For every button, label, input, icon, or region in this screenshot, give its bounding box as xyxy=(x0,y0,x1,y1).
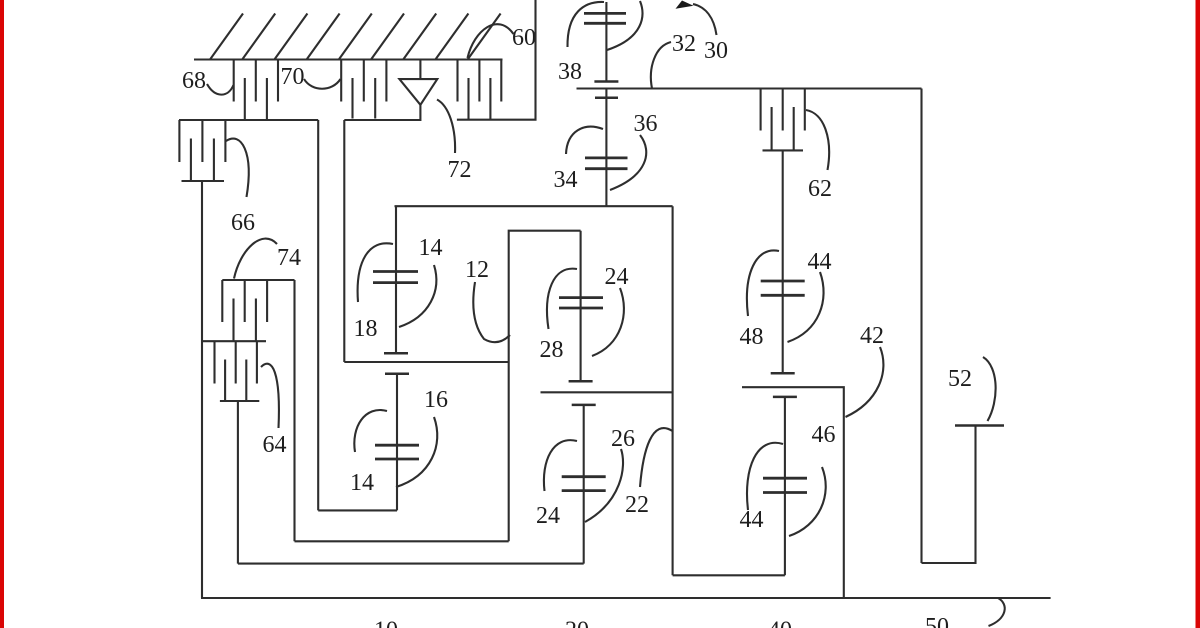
svg-text:14: 14 xyxy=(350,470,374,496)
node line hub of brake 68 xyxy=(179,119,318,121)
svg-text:60: 60 xyxy=(512,25,536,51)
svg-text:38: 38 xyxy=(558,59,582,85)
leader hook 66 xyxy=(226,139,249,197)
leader hook 32 xyxy=(651,42,671,89)
leader hook 50 xyxy=(989,598,1005,626)
svg-text:28: 28 xyxy=(540,337,564,363)
leader hook 64 xyxy=(261,364,279,428)
red right border stripe xyxy=(1196,0,1200,628)
svg-text:44: 44 xyxy=(740,507,764,533)
wire left long vertical from brake 66 hub xyxy=(201,181,203,598)
leader arc 34 xyxy=(566,127,603,154)
brake 60 friction pack xyxy=(458,60,502,120)
svg-text:22: 22 xyxy=(625,492,649,518)
leader arc 46 right xyxy=(789,467,826,536)
gear node 46 44 xyxy=(763,397,807,575)
gear node 44 48 xyxy=(761,150,805,373)
leader arc 44 lower left xyxy=(747,443,783,510)
leader hook 62 xyxy=(806,110,829,170)
leader hook 42 xyxy=(846,347,884,417)
svg-text:20: 20 xyxy=(565,618,589,628)
svg-text:36: 36 xyxy=(634,111,658,137)
gear node 14 18 xyxy=(373,206,418,353)
wire from brake 74 to lower node xyxy=(293,280,295,541)
gear node 24 28 xyxy=(559,231,603,382)
leader arc 44 right xyxy=(788,272,824,342)
node line 22 xyxy=(238,563,584,565)
svg-text:42: 42 xyxy=(860,323,884,349)
leader arc 14 right xyxy=(399,265,436,327)
leader arc 16 right xyxy=(396,417,437,487)
wire from brake 70 hub down xyxy=(343,120,345,362)
svg-text:46: 46 xyxy=(812,422,836,448)
gear node 38 xyxy=(584,2,626,82)
svg-text:14: 14 xyxy=(419,235,443,261)
wire shaft of brake 64 xyxy=(237,401,239,564)
clutch 62 friction pack xyxy=(761,89,805,151)
svg-text:44: 44 xyxy=(808,249,832,275)
arrow 30 xyxy=(676,1,694,9)
node line under 24 xyxy=(541,391,673,393)
one-way clutch 72 triangle xyxy=(399,79,437,105)
hub line of brake 60 xyxy=(457,0,536,120)
node line under 14 xyxy=(344,361,508,363)
hub line of brake 70 xyxy=(344,105,420,120)
svg-text:70: 70 xyxy=(281,64,305,90)
svg-text:62: 62 xyxy=(808,176,832,202)
svg-text:66: 66 xyxy=(231,210,255,236)
svg-text:68: 68 xyxy=(182,68,206,94)
svg-text:24: 24 xyxy=(605,264,629,290)
svg-text:64: 64 xyxy=(263,432,287,458)
svg-text:16: 16 xyxy=(424,387,448,413)
wire long vertical from brake 68 hub xyxy=(317,120,319,510)
svg-text:24: 24 xyxy=(536,503,560,529)
brake 66 friction pack xyxy=(179,120,225,181)
svg-text:72: 72 xyxy=(448,157,472,183)
leader arc 24 right xyxy=(592,288,624,356)
brake 68 friction pack xyxy=(234,60,278,120)
leader arc 18 left xyxy=(358,243,393,302)
leader hook 70 xyxy=(304,79,341,89)
leader hook 26 xyxy=(640,428,673,487)
stub ground to triangle xyxy=(419,60,421,80)
fixed housing ground line xyxy=(194,58,503,60)
brake 74 friction pack xyxy=(222,280,294,341)
node 32 line xyxy=(577,87,922,89)
svg-text:32: 32 xyxy=(672,31,696,57)
leader hook 12 xyxy=(473,282,510,342)
leader hook 60 xyxy=(468,24,514,58)
svg-text:52: 52 xyxy=(948,366,972,392)
svg-text:40: 40 xyxy=(768,618,792,628)
top line of gearset box xyxy=(395,205,673,207)
leader arc 28 left xyxy=(547,269,577,329)
wire right vertical from node 32 xyxy=(920,89,922,564)
hatching on housing xyxy=(210,14,501,60)
svg-text:48: 48 xyxy=(740,324,764,350)
wire bottom of 46 to box edge xyxy=(673,574,785,576)
leader hook 74 xyxy=(234,239,277,279)
wire bottom of 16 xyxy=(318,509,397,511)
bridge link 12 xyxy=(509,231,581,542)
leader hook 68 xyxy=(207,84,234,95)
node 42 line xyxy=(742,387,844,598)
output member 52 xyxy=(922,426,1005,564)
gear node 34 36 xyxy=(585,89,628,207)
svg-text:26: 26 xyxy=(611,426,635,452)
leader arc 38 right xyxy=(607,1,642,50)
svg-text:74: 74 xyxy=(277,245,301,271)
leader hook 52 xyxy=(983,357,996,421)
svg-text:18: 18 xyxy=(354,316,378,342)
node line to bridge xyxy=(295,540,509,542)
svg-text:50: 50 xyxy=(925,614,949,628)
gear node 26 24 xyxy=(562,405,606,564)
red left border stripe xyxy=(0,0,4,628)
bottom input line 10 xyxy=(201,597,1051,599)
gear node 16 14 xyxy=(375,374,419,511)
svg-text:30: 30 xyxy=(704,38,728,64)
brake 64 friction pack xyxy=(215,341,260,401)
svg-text:34: 34 xyxy=(554,167,578,193)
hub line of brake 74 xyxy=(202,340,266,342)
leader arc 38 left xyxy=(567,2,604,47)
leader hook 72 xyxy=(437,100,455,154)
leader arc 48 left xyxy=(747,250,779,316)
leader arc 36 xyxy=(610,135,646,190)
svg-text:12: 12 xyxy=(465,257,489,283)
leader arc 14 lower left xyxy=(354,410,387,452)
brake 70 friction pack xyxy=(341,60,386,119)
leader arc 24 lower left xyxy=(544,440,577,491)
svg-text:10: 10 xyxy=(374,618,398,628)
wire right edge of gearset box xyxy=(672,206,674,575)
leader arc 26 right xyxy=(585,449,623,522)
